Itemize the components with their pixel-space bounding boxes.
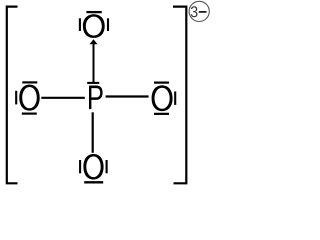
lone pair bottom O right — [106, 160, 108, 173]
lone pair left O lower — [22, 112, 37, 114]
bond P-O right — [106, 95, 149, 97]
dative bond arrowhead — [90, 39, 98, 44]
left bracket — [7, 7, 18, 184]
lone pair top O right — [107, 18, 109, 31]
atom P central phosphorus — [89, 86, 103, 110]
dative bond arrow shaft P to top O — [93, 44, 95, 83]
dative bond tail bar lone pair on P — [87, 82, 99, 84]
lone pair right O upper — [154, 81, 169, 83]
lone pair top O left — [79, 18, 81, 31]
lone pair right O lower — [154, 113, 169, 115]
lone pair left O upper — [22, 81, 37, 83]
bond P-O bottom — [92, 112, 94, 153]
lone pair bottom O left — [79, 160, 81, 173]
atom O top oxygen — [83, 14, 105, 38]
charge minus sign — [199, 11, 207, 13]
bond P-O left — [41, 97, 85, 99]
right bracket — [173, 7, 186, 184]
atom O left oxygen — [19, 85, 39, 111]
atom O bottom oxygen — [83, 154, 103, 180]
lone pair bottom O lower — [84, 181, 103, 183]
lone pair top O upper — [86, 11, 101, 13]
charge label 3 — [191, 6, 198, 17]
lone pair left O left — [15, 91, 17, 105]
atom O right oxygen — [152, 85, 173, 111]
charge circle — [189, 1, 209, 21]
lone pair right O right — [174, 91, 176, 105]
